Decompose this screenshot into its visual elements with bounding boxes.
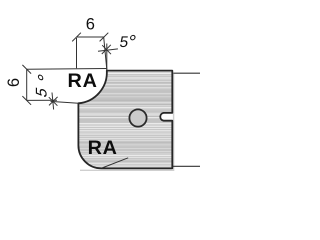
svg-text:5°: 5° <box>118 31 137 53</box>
svg-text:RA: RA <box>68 70 98 92</box>
svg-text:RA: RA <box>88 137 118 159</box>
svg-text:5°: 5° <box>34 71 57 101</box>
svg-text:6: 6 <box>5 78 23 87</box>
svg-text:6: 6 <box>86 15 95 33</box>
